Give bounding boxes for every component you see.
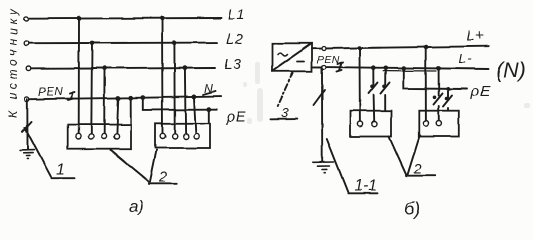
wire PEN / N [30, 97, 222, 100]
rectifier U1 AC symbol [278, 53, 288, 56]
wire PE to box4 enclosure (with disconnect) [443, 89, 452, 111]
junction on L- at x438 [436, 66, 441, 71]
wire L1 [29, 17, 222, 20]
junction on L- at x385 [383, 66, 388, 71]
junction on L2 at x92 [90, 41, 95, 46]
svg-text:L2: L2 [226, 32, 244, 48]
wire L2 [30, 42, 217, 45]
node PEN label tick [68, 92, 75, 100]
rectifier U1 box [272, 43, 312, 71]
svg-text:PEN: PEN [38, 87, 63, 99]
wire PEN to ground (scheme b) [321, 69, 323, 162]
junction on L3 at x185 [183, 65, 188, 70]
svg-text:1-1: 1-1 [355, 178, 377, 195]
node PEN terminal (scheme b) [322, 65, 326, 69]
wire L- retrace stroke [383, 70, 436, 72]
svg-text:1: 1 [56, 162, 65, 179]
wire L- to box3 enclosure (with disconnect) [381, 68, 390, 111]
wire PE to box2 enclosure [208, 110, 210, 124]
node disconnect pivot box4 t2 [433, 96, 437, 100]
node PEN label tick (scheme b) [337, 62, 344, 72]
junction on PEN at x143 (PE branch) [140, 95, 145, 100]
node label 3 underline [271, 118, 298, 120]
wire L3 [31, 67, 215, 70]
wire L3 to box1 terminal [103, 68, 105, 134]
node box1 terminal 1 [76, 134, 81, 139]
wire L1 to box1 terminal [78, 19, 80, 134]
junction on L- at x403 (PE branch) [401, 66, 406, 71]
node box3 terminal 1 [357, 121, 362, 126]
wire L+ [326, 46, 489, 48]
svg-text:L1: L1 [228, 8, 246, 24]
svg-text:(N): (N) [496, 58, 526, 82]
wire L1 to box2 terminal [161, 18, 164, 133]
box 3 (consumer, scheme b) [350, 111, 392, 137]
rectifier U1 DC minus symbol [298, 61, 305, 63]
svg-text:PEN: PEN [317, 54, 340, 66]
node box1 terminal 3 [101, 134, 106, 139]
node label 3 leader (dash-dot) [277, 72, 293, 106]
node box1 terminal 4 [114, 134, 119, 139]
node label 1-1 leader [327, 139, 378, 193]
wire PEN to ground electrode [26, 99, 28, 149]
wire L2 to box2 terminal [173, 43, 175, 134]
svg-text:L+: L+ [467, 29, 485, 45]
node L2 source terminal [25, 41, 30, 46]
junction on PE at x448 [446, 87, 451, 92]
svg-text:ρE: ρE [226, 108, 247, 125]
junction on PE at x209 [206, 107, 211, 112]
box 1 (consumer, scheme a) [68, 125, 131, 149]
svg-text:б): б) [404, 199, 420, 219]
svg-text:L-: L- [459, 51, 473, 66]
svg-text:К источнику: К источнику [6, 5, 20, 118]
node L1 source terminal [24, 16, 29, 21]
wire PEN / L- [326, 67, 488, 69]
wire PE branch drop [143, 98, 217, 110]
wire L+ to box3 terminal [359, 48, 361, 121]
svg-text:2: 2 [158, 170, 167, 186]
svg-text:ρE: ρE [470, 83, 491, 100]
node box2 terminal 2 [172, 134, 177, 139]
node label 1 leader [25, 128, 75, 179]
node box1 terminal 2 [88, 134, 93, 139]
wire N to box2 terminal [194, 97, 196, 134]
node disconnect pivot box3 encl [382, 85, 386, 89]
node slash tick on ground wire (scheme b) [314, 91, 325, 106]
node N label tick [203, 92, 216, 96]
wire rectifier to PEN terminal [312, 66, 322, 68]
node label 2 leader (scheme a) [111, 150, 176, 183]
wire L3 to box2 terminal [184, 68, 187, 134]
junction on L+ at x426 [423, 45, 428, 50]
node box4 terminal 2 [436, 121, 441, 126]
box 2 (consumer, scheme a) [155, 124, 210, 148]
node box3 terminal 2 [372, 121, 377, 126]
node disconnect pivot box3 t2 [370, 85, 374, 89]
scan smudge (decorative) [243, 62, 530, 124]
junction on L2 at x174 [172, 40, 177, 45]
wire L2 to box1 terminal [90, 43, 93, 134]
junction on L+ at x359 [357, 46, 362, 51]
node box2 terminal 1 [160, 134, 165, 139]
node box2 terminal 3 [183, 134, 188, 139]
wire L- to box4 terminal (with disconnect) [434, 68, 443, 121]
box 4 (consumer, scheme b) [419, 111, 459, 137]
junction on PEN at x131 [128, 95, 133, 100]
junction on N at x194 [192, 95, 197, 100]
rectifier U1 diagonal [272, 43, 312, 71]
node slash tick on ground wire [23, 122, 32, 132]
ground (scheme b) [313, 162, 334, 173]
node box4 terminal 1 [423, 121, 428, 126]
wire rectifier to L+ terminal [312, 48, 322, 50]
svg-text:а): а) [129, 197, 144, 216]
junction on L1 at x162 [160, 16, 165, 21]
junction on L3 at x104 [102, 66, 107, 71]
node label 2 leader (scheme b) [389, 135, 435, 176]
wire PE branch (scheme b) [403, 68, 467, 89]
wire PEN to box1 enclosure [130, 98, 132, 125]
wire PEN to box1 terminal [117, 98, 118, 134]
node box2 terminal 4 [194, 134, 199, 139]
node L3 source terminal [26, 66, 31, 71]
wire L+ to box4 terminal [425, 47, 427, 121]
svg-text:L3: L3 [224, 57, 242, 73]
junction on PEN at x118 [116, 96, 121, 101]
node PEN source terminal [25, 97, 30, 102]
node L+ terminal [322, 47, 326, 51]
node disconnect pivot box4 encl [445, 97, 449, 101]
ground (scheme a) [20, 150, 35, 159]
svg-text:2: 2 [413, 162, 422, 178]
junction on L- at x373 [371, 65, 376, 70]
wire L- to box3 terminal (with disconnect) [369, 68, 378, 121]
junction on L1 at x79 [77, 16, 82, 21]
